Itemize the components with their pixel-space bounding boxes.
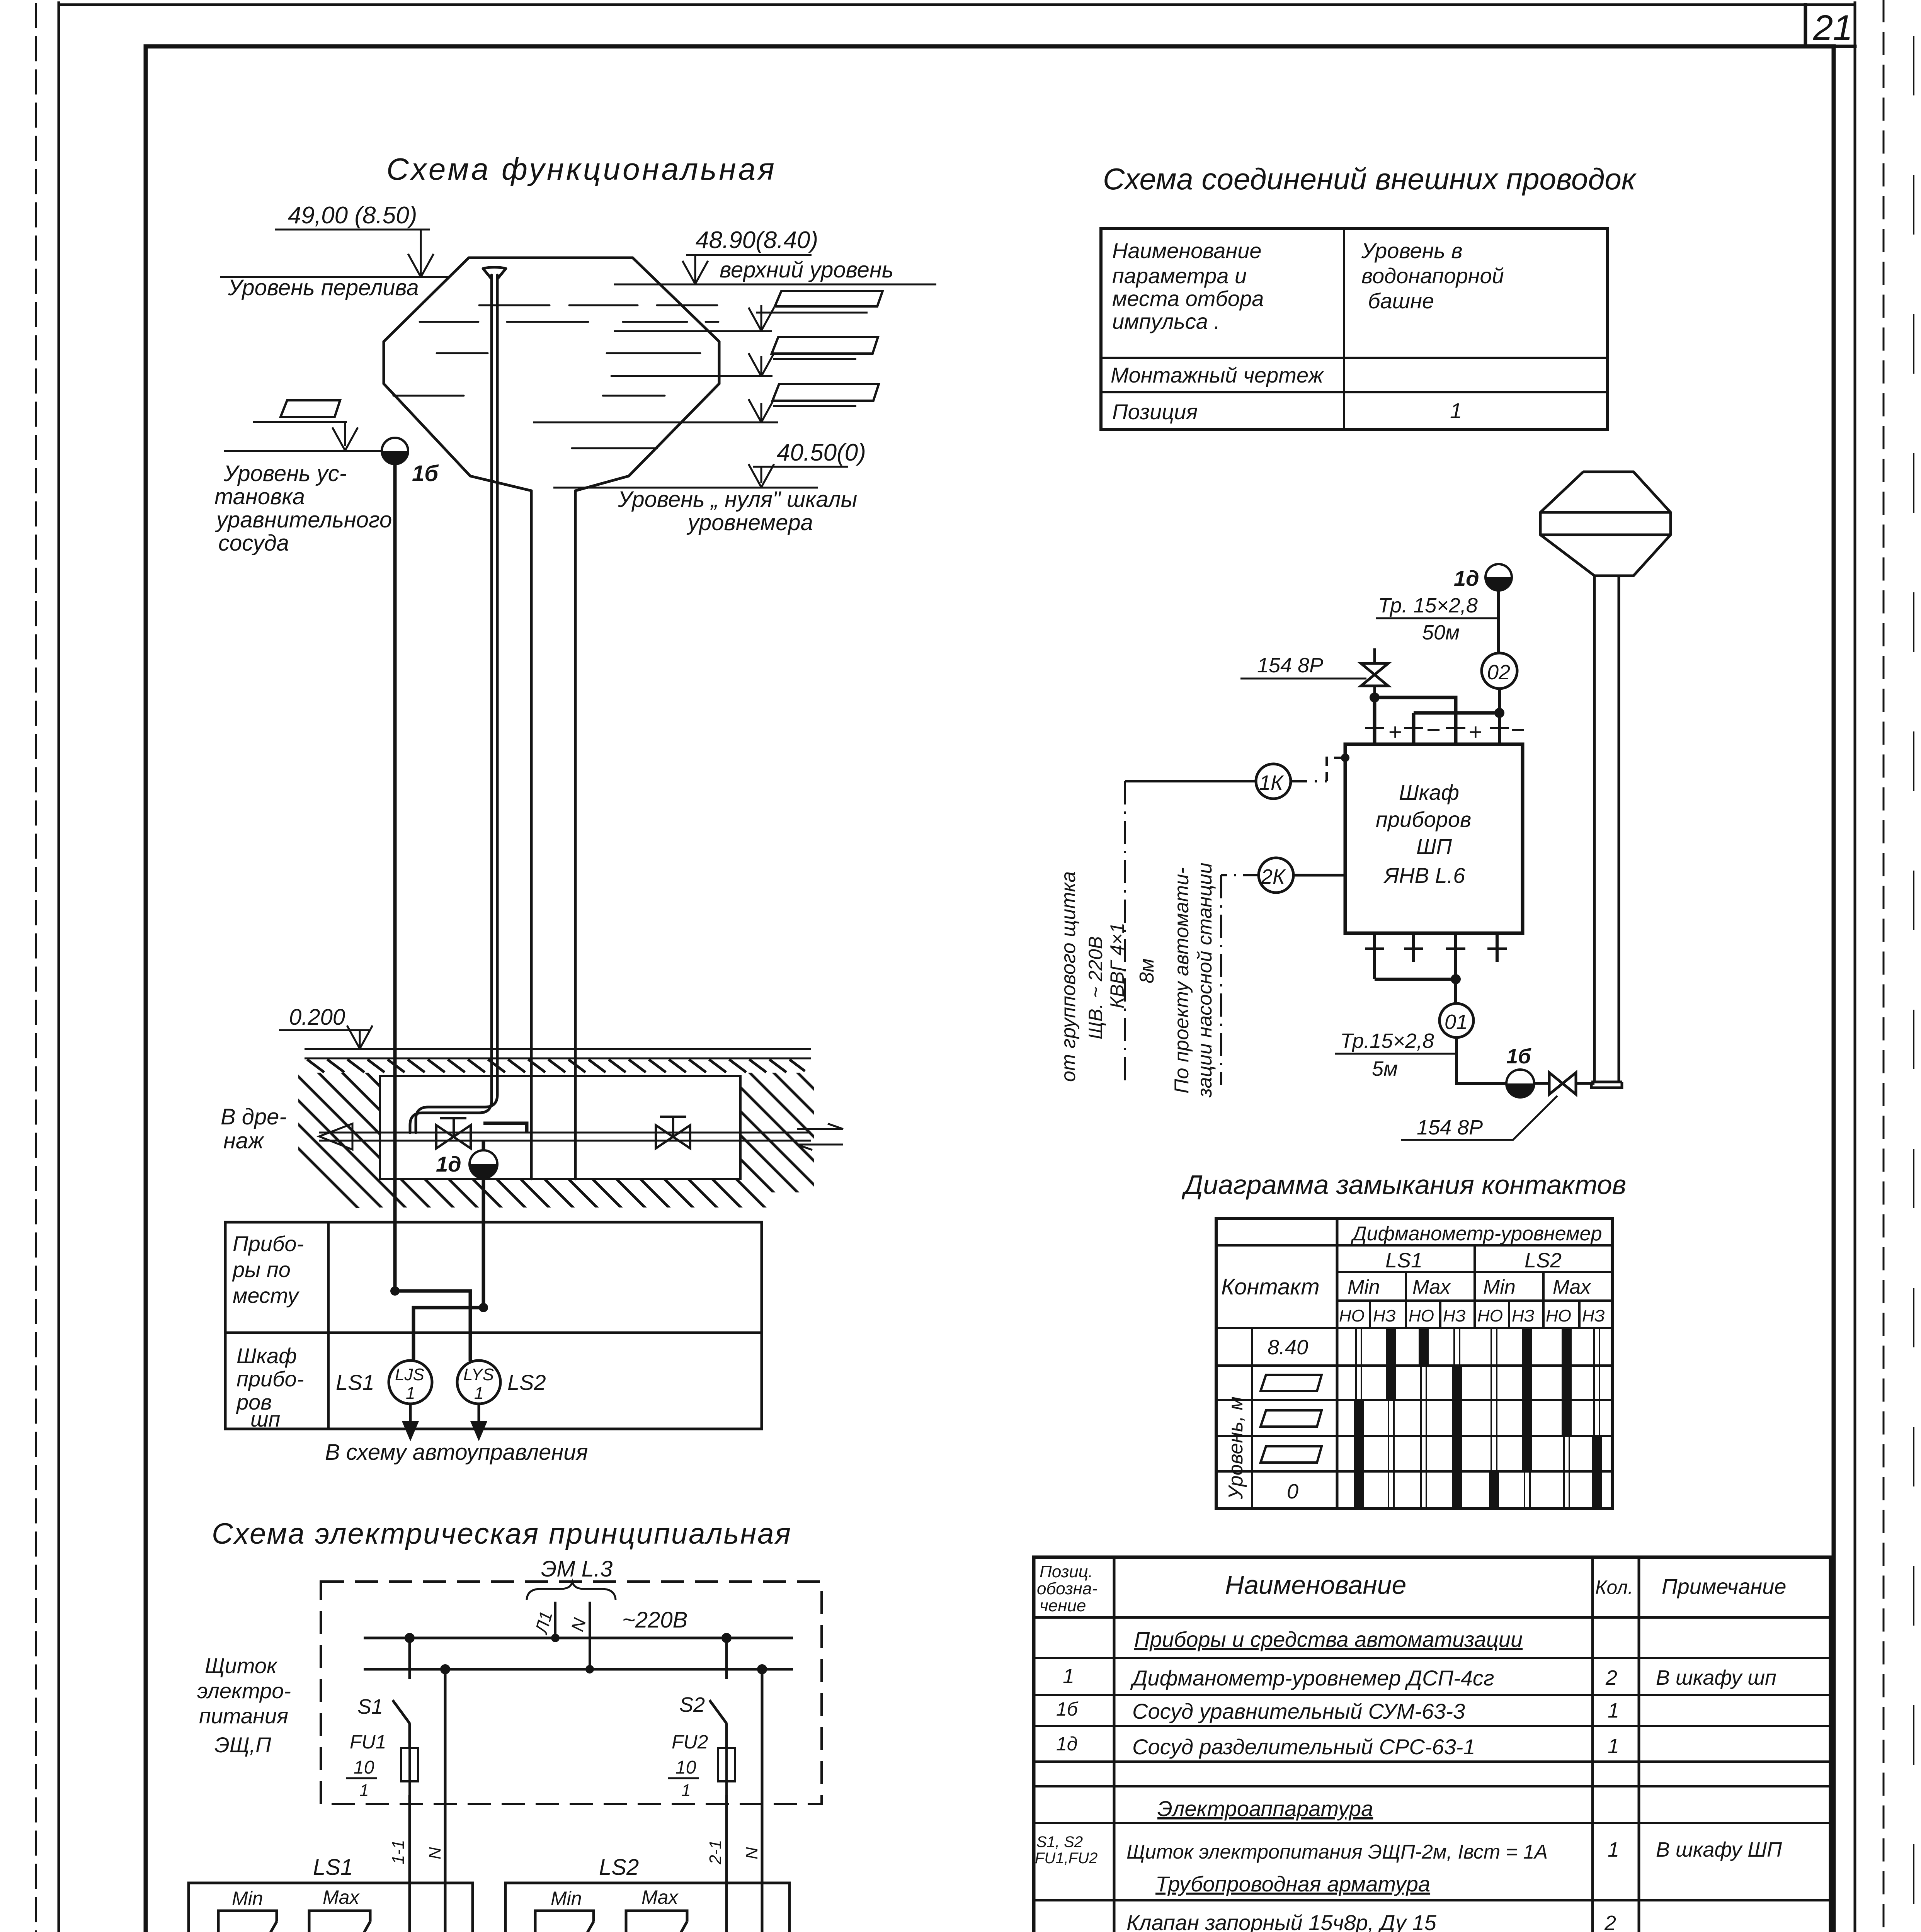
wire N down to LS1 Б2 [444, 1669, 447, 1932]
svg-text:49,00 (8.50): 49,00 (8.50) [288, 202, 417, 229]
svg-text:Наименование: Наименование [1112, 238, 1261, 263]
wire N down to LS2 Б2 [761, 1669, 764, 1932]
svg-text:−: − [1510, 716, 1525, 743]
instrument bubble LJS/1 [389, 1361, 432, 1404]
cable circle 1К [1256, 764, 1291, 799]
svg-text:Контакт: Контакт [1221, 1274, 1320, 1299]
separating vessel 1a (half filled) [470, 1150, 497, 1178]
svg-text:Сосуд разделительный СРС-63-1: Сосуд разделительный СРС-63-1 [1132, 1735, 1475, 1759]
svg-text:Max: Max [641, 1886, 679, 1908]
dash-dot from 1К to box [1291, 780, 1327, 782]
svg-text:1: 1 [1063, 1665, 1074, 1688]
level parallelogram r2 [1261, 1375, 1322, 1391]
svg-text:Клапан запорный 15ч8р, Ду 15: Клапан запорный 15ч8р, Ду 15 [1126, 1910, 1437, 1932]
ground hatch band [307, 1060, 805, 1072]
cable circle 2К [1259, 858, 1293, 893]
arrow head [408, 254, 434, 277]
svg-text:По проекту автомати-: По проекту автомати- [1171, 867, 1193, 1094]
svg-text:Шкаф: Шкаф [1399, 780, 1459, 804]
LS2 Min changeover contact [535, 1911, 594, 1932]
junction dot under valve [1370, 692, 1380, 702]
svg-text:Сосуд уравнительный СУМ-63-3: Сосуд уравнительный СУМ-63-3 [1132, 1699, 1465, 1723]
svg-text:Уровень перелива: Уровень перелива [228, 275, 419, 300]
svg-text:1: 1 [681, 1781, 691, 1800]
brace over Л1/N wires [527, 1582, 616, 1600]
wire from 1К to the left and down (dash-dot) [1125, 780, 1256, 782]
svg-text:башне: башне [1368, 289, 1434, 313]
place/panel table [225, 1222, 762, 1429]
svg-text:Min: Min [1348, 1276, 1380, 1298]
outer border right [1854, 3, 1856, 1932]
water tower silhouette [1540, 472, 1671, 1088]
svg-text:НО: НО [1409, 1306, 1434, 1325]
crossing wires into LS circles [395, 1291, 483, 1361]
svg-text:1: 1 [1450, 398, 1462, 423]
svg-text:Уровень в: Уровень в [1361, 238, 1463, 263]
svg-text:FU1: FU1 [350, 1731, 386, 1753]
wire from FU2 down to LS2 Б1 [725, 1795, 728, 1932]
flow arrows right [797, 1124, 843, 1150]
svg-text:48.90(8.40): 48.90(8.40) [696, 227, 818, 253]
svg-text:21: 21 [1813, 8, 1853, 48]
svg-text:Примечание: Примечание [1662, 1574, 1787, 1599]
svg-text:1: 1 [1608, 1735, 1619, 1758]
svg-text:−: − [1426, 716, 1440, 743]
svg-text:5м: 5м [1372, 1057, 1398, 1080]
svg-text:Min: Min [1483, 1276, 1516, 1298]
LS1 Min changeover contact [218, 1911, 277, 1932]
svg-text:импульса .: импульса . [1112, 309, 1220, 333]
svg-text:Min: Min [232, 1888, 263, 1909]
svg-text:Схема функциональная: Схема функциональная [386, 152, 777, 186]
left parallelogram flag [281, 400, 340, 417]
level parallelogram r3 [1261, 1410, 1322, 1427]
arrow 2 [761, 356, 762, 376]
shutoff valve (horizontal bowtie) [1534, 1073, 1576, 1094]
contact table grid [1216, 1219, 1612, 1509]
svg-text:верхний уровень: верхний уровень [720, 257, 893, 282]
wire from 1б down to panel table [393, 464, 397, 1291]
svg-text:1б: 1б [1056, 1698, 1079, 1720]
svg-text:уравнительного: уравнительного [215, 507, 392, 532]
wire N [589, 1602, 591, 1669]
wire Л1 [554, 1602, 556, 1638]
svg-text:1: 1 [1608, 1838, 1619, 1861]
svg-text:питания: питания [199, 1704, 288, 1728]
svg-text:Электроаппаратура: Электроаппаратура [1157, 1796, 1373, 1821]
left fold dashed line [35, 4, 37, 1932]
equalizing vessel 1б (half filled) [1506, 1070, 1534, 1097]
svg-text:В схему автоуправления: В схему автоуправления [325, 1440, 588, 1465]
closed-contact bars [1354, 1328, 1602, 1509]
svg-text:LS2: LS2 [599, 1855, 639, 1880]
svg-text:LJS: LJS [395, 1365, 424, 1384]
svg-text:наж: наж [223, 1128, 264, 1153]
svg-text:НЗ: НЗ [1373, 1306, 1396, 1325]
svg-text:зации насосной станции: зации насосной станции [1194, 862, 1216, 1098]
svg-text:ЭМ L.3: ЭМ L.3 [541, 1556, 613, 1582]
svg-text:Трубопроводная арматура: Трубопроводная арматура [1155, 1872, 1430, 1896]
svg-text:~220В: ~220В [622, 1607, 687, 1633]
thick connection from pipe to 1a [483, 1123, 527, 1150]
bottom bus [1375, 978, 1456, 981]
valve stem [440, 1118, 466, 1137]
svg-text:1д: 1д [1056, 1733, 1077, 1755]
svg-text:месту: месту [233, 1283, 299, 1308]
output arrows to auto control [410, 1404, 479, 1437]
neutral bus [364, 1668, 793, 1671]
svg-text:Уровень ус-: Уровень ус- [223, 461, 347, 486]
svg-text:от группового щитка: от группового щитка [1057, 871, 1080, 1082]
svg-text:1: 1 [1608, 1699, 1619, 1722]
outer border left [58, 3, 60, 1932]
svg-text:S1, S2: S1, S2 [1036, 1833, 1083, 1850]
svg-text:154 8Р: 154 8Р [1417, 1116, 1483, 1139]
svg-text:ЩВ. ~ 220В: ЩВ. ~ 220В [1085, 936, 1106, 1039]
svg-text:Тр.15×2,8: Тр.15×2,8 [1340, 1029, 1434, 1053]
level flag parallelogram 2 [772, 337, 878, 354]
svg-text:сосуда: сосуда [218, 531, 289, 556]
svg-text:НЗ: НЗ [1443, 1306, 1466, 1325]
svg-text:В шкафу ШП: В шкафу ШП [1656, 1838, 1782, 1861]
svg-text:+: + [1468, 719, 1482, 745]
svg-text:приборов: приборов [1376, 807, 1471, 832]
svg-text:В шкафу шп: В шкафу шп [1656, 1666, 1776, 1689]
svg-text:+: + [1388, 719, 1402, 745]
svg-text:N: N [742, 1847, 761, 1859]
svg-text:Позиция: Позиция [1112, 400, 1198, 424]
svg-text:1: 1 [474, 1384, 483, 1403]
svg-text:Щиток: Щиток [205, 1653, 278, 1678]
svg-text:ЭЩ,П: ЭЩ,П [214, 1733, 271, 1757]
vent valve (vertical bowtie) [1361, 663, 1388, 686]
svg-text:ЯНВ L.6: ЯНВ L.6 [1383, 863, 1465, 888]
svg-text:прибо-: прибо- [237, 1367, 304, 1391]
ground surface double line [305, 1049, 811, 1058]
phase bus [364, 1637, 793, 1639]
svg-text:Схема соединений внешних прово: Схема соединений внешних проводок [1103, 162, 1637, 196]
svg-text:Кол.: Кол. [1595, 1577, 1633, 1598]
svg-text:50м: 50м [1422, 621, 1460, 644]
drain arrow head [319, 1124, 352, 1150]
svg-text:154 8Р: 154 8Р [1257, 654, 1323, 677]
svg-text:2: 2 [1604, 1912, 1616, 1932]
svg-text:Щиток электропитания ЭЩП-2м, I: Щиток электропитания ЭЩП-2м, Iвст = 1А [1126, 1841, 1548, 1863]
level line: верхний уровень [614, 284, 936, 286]
sensor vessel 1б (half filled circle) [382, 438, 408, 464]
impulse tube from 1a down [1497, 590, 1500, 653]
tower shaft [1591, 576, 1622, 1088]
instrument circle 02 [1482, 653, 1517, 689]
instrument cabinet box ШП [1345, 744, 1523, 933]
svg-text:1б: 1б [1506, 1045, 1531, 1068]
wire from FU1 down to LS1 Б1 [408, 1795, 411, 1932]
arrow 1 [761, 305, 762, 330]
arrow to 1б level [344, 422, 346, 446]
svg-text:НЗ: НЗ [1512, 1306, 1535, 1325]
valve 2 (bowtie) in chamber [656, 1125, 690, 1148]
svg-text:Наименование: Наименование [1225, 1570, 1406, 1600]
LS1 contact box [189, 1883, 473, 1932]
wire down to 01 [1454, 979, 1457, 1003]
svg-text:Прибо-: Прибо- [233, 1231, 304, 1256]
svg-text:Дифманометр-уровнемер: Дифманометр-уровнемер [1351, 1223, 1602, 1245]
components table grid [1034, 1557, 1831, 1932]
wire 2К to left and down (dash-dot) [1221, 874, 1259, 876]
svg-text:1б: 1б [412, 461, 439, 486]
svg-text:Диаграмма замыкания контактов: Диаграмма замыкания контактов [1181, 1170, 1626, 1200]
arrow head [682, 261, 708, 284]
svg-text:В дре-: В дре- [221, 1104, 287, 1129]
outer border top [59, 3, 1855, 6]
svg-text:Max: Max [1553, 1276, 1591, 1298]
LS2 Max changeover contact [626, 1911, 687, 1932]
svg-text:Уровень „ нуля" шкалы: Уровень „ нуля" шкалы [618, 487, 857, 512]
svg-text:Шкаф: Шкаф [237, 1344, 297, 1368]
svg-text:LS1: LS1 [336, 1370, 374, 1395]
svg-text:FU1,FU2: FU1,FU2 [1035, 1850, 1097, 1867]
svg-text:шп: шп [250, 1407, 280, 1431]
far right edge artifact [1913, 37, 1914, 1932]
svg-text:40.50(0): 40.50(0) [777, 439, 866, 466]
svg-text:LS1: LS1 [313, 1855, 353, 1880]
level flag parallelogram 3 [772, 384, 879, 401]
svg-text:Монтажный чертеж: Монтажный чертеж [1111, 363, 1324, 387]
drain pipe double line [319, 1133, 811, 1141]
impulse tube inside tower (twin line with elbow) [410, 275, 492, 1133]
svg-text:10: 10 [675, 1757, 696, 1778]
water surface dashes [479, 304, 717, 306]
svg-text:НО: НО [1477, 1306, 1503, 1325]
svg-text:Min: Min [551, 1888, 582, 1909]
svg-text:параметра и: параметра и [1112, 264, 1247, 288]
svg-text:водонапорной: водонапорной [1361, 264, 1504, 288]
parameter table [1101, 229, 1608, 429]
thin contact rails [1356, 1328, 1599, 1509]
svg-text:КВВГ 4×1: КВВГ 4×1 [1106, 923, 1128, 1009]
LS2 contact box [505, 1883, 789, 1932]
svg-text:1д: 1д [1454, 566, 1479, 590]
svg-text:1: 1 [359, 1781, 369, 1800]
instrument circle 01 [1439, 1003, 1474, 1037]
svg-text:тановка: тановка [214, 484, 305, 509]
junction dots [405, 1633, 415, 1643]
svg-text:2: 2 [1605, 1666, 1617, 1689]
terminal ticks and polarity labels [1365, 727, 1509, 729]
separating vessel 1a (half filled) [1485, 564, 1512, 590]
wire 2К to box [1293, 874, 1345, 877]
svg-text:LS1: LS1 [1385, 1249, 1422, 1272]
level parallelogram r4 [1261, 1446, 1322, 1463]
cabinet bottom terminals [1375, 933, 1497, 979]
svg-text:LS2: LS2 [507, 1370, 546, 1395]
svg-text:НО: НО [1339, 1306, 1365, 1325]
plus bridge wire [1375, 697, 1456, 744]
svg-text:Уровень, м: Уровень, м [1225, 1396, 1247, 1500]
arrow 3 [761, 403, 762, 422]
svg-text:FU2: FU2 [672, 1731, 708, 1753]
tower tank outline [1540, 472, 1671, 576]
svg-text:ры по: ры по [232, 1257, 291, 1282]
sheet number box [1805, 5, 1855, 46]
svg-text:уровнемера: уровнемера [686, 510, 813, 535]
junction dot on 02 wire [1494, 708, 1504, 718]
wire 02 down to minus terminals [1498, 689, 1501, 744]
svg-text:01: 01 [1445, 1010, 1468, 1034]
power panel dashed box [321, 1582, 822, 1804]
level line: уровень перелива [220, 276, 450, 278]
tower stem wall right [574, 491, 577, 1179]
svg-text:LS2: LS2 [1525, 1249, 1562, 1272]
right page-edge dashed artifact [1883, 0, 1885, 1932]
svg-text:электро-: электро- [197, 1679, 291, 1703]
wire from 01 down and right [1456, 1037, 1506, 1083]
svg-text:Max: Max [1412, 1276, 1451, 1298]
svg-text:2-1: 2-1 [706, 1840, 725, 1865]
svg-text:0.200: 0.200 [289, 1005, 345, 1030]
level flag parallelogram 1 [775, 291, 883, 306]
wire from 1a down to panel table [482, 1178, 485, 1308]
LS1 Max changeover contact [309, 1911, 370, 1932]
tower stem wall left [530, 491, 533, 1179]
valve 1a (bowtie) in chamber [436, 1125, 471, 1148]
svg-text:Max: Max [323, 1886, 360, 1908]
svg-text:НЗ: НЗ [1582, 1306, 1605, 1325]
svg-text:обозна-: обозна- [1037, 1579, 1097, 1598]
svg-text:10: 10 [354, 1757, 374, 1778]
tube funnel [483, 267, 506, 279]
svg-text:0: 0 [1287, 1480, 1298, 1503]
junction dots [390, 1286, 400, 1296]
svg-text:1-1: 1-1 [389, 1840, 408, 1864]
svg-text:НО: НО [1546, 1306, 1571, 1325]
svg-text:Приборы и средства автоматизац: Приборы и средства автоматизации [1134, 1627, 1523, 1651]
earth hatch around chamber [193, 1043, 1000, 1275]
svg-text:ШП: ШП [1416, 834, 1452, 859]
svg-text:S1: S1 [357, 1695, 383, 1718]
svg-text:N: N [425, 1847, 444, 1859]
svg-text:2К: 2К [1261, 865, 1286, 888]
instrument chamber box [380, 1076, 740, 1179]
svg-text:8м: 8м [1136, 958, 1158, 983]
svg-text:чение: чение [1040, 1596, 1086, 1615]
svg-text:8.40: 8.40 [1268, 1336, 1308, 1359]
svg-text:LYS: LYS [463, 1365, 494, 1384]
svg-text:1К: 1К [1259, 771, 1284, 794]
svg-text:1: 1 [406, 1384, 415, 1403]
svg-text:Позиц.: Позиц. [1040, 1562, 1093, 1581]
minus bridge wire [1414, 713, 1499, 744]
svg-text:Схема электрическая принципиа: Схема электрическая принципиальная [212, 1517, 792, 1550]
arrow head [749, 464, 774, 487]
tank octagon of water tower [384, 258, 719, 491]
level line установки сосуда [224, 450, 382, 452]
svg-text:02: 02 [1487, 661, 1510, 684]
svg-text:Дифманометр-уровнемер ДСП-4сг: Дифманометр-уровнемер ДСП-4сг [1130, 1666, 1494, 1690]
svg-text:S2: S2 [679, 1693, 705, 1716]
zero level line [553, 487, 818, 489]
instrument bubble LYS/1 [457, 1361, 500, 1404]
svg-text:Тр. 15×2,8: Тр. 15×2,8 [1378, 594, 1478, 617]
svg-text:1д: 1д [436, 1152, 461, 1176]
svg-text:места отбора: места отбора [1112, 286, 1264, 311]
